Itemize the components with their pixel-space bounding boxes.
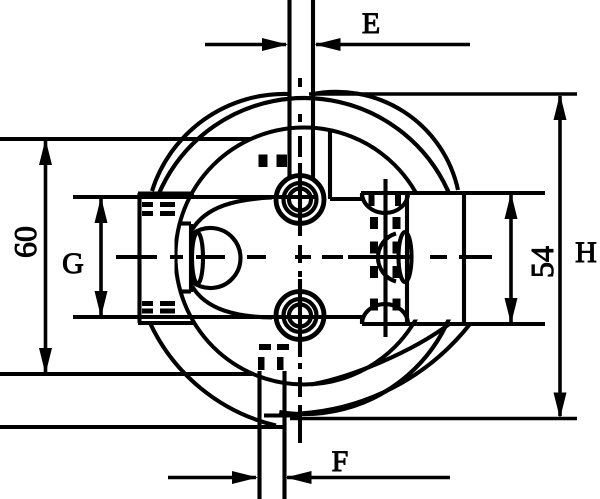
block hatch top row2 right xyxy=(160,211,175,216)
hidden bar right column 1 xyxy=(393,217,401,229)
slot arc bottom-right inner xyxy=(311,324,450,385)
bottom screw outer circle xyxy=(276,292,324,340)
60-dim lower extension line xyxy=(0,372,252,376)
F arrow right-pointing xyxy=(232,471,258,484)
dome arc xyxy=(378,234,396,282)
H arrow up xyxy=(554,94,567,120)
60-dim upper extension line xyxy=(0,137,250,141)
white cover left block interior xyxy=(142,195,175,321)
upper plate line xyxy=(73,195,318,199)
top bowl dash 1 xyxy=(369,194,375,206)
hidden bar left column 1 xyxy=(370,217,378,229)
inner circle xyxy=(176,128,433,385)
60 arrow up xyxy=(39,139,52,165)
E arrow left-pointing xyxy=(315,38,341,51)
bottom tangent segment xyxy=(264,413,300,417)
vertical centerline dashes xyxy=(298,78,302,443)
G arrow down xyxy=(95,291,108,317)
svg-text:E: E xyxy=(362,7,380,40)
F dimension left line xyxy=(168,476,256,480)
right step top horizontal xyxy=(330,197,362,201)
hidden dash above top screw left xyxy=(259,155,268,168)
horn arc lower xyxy=(192,286,272,318)
F dimension right line xyxy=(287,476,450,480)
block hatch bottom row1 left xyxy=(142,301,153,306)
54 arrow down xyxy=(505,298,518,324)
E dimension right line xyxy=(316,43,470,47)
left block top edge xyxy=(138,192,194,196)
horizontal centerline dashes xyxy=(116,255,492,259)
left block upper step xyxy=(179,221,191,225)
H dimension line xyxy=(558,96,562,416)
svg-text:54: 54 xyxy=(524,246,560,278)
54 arrow up xyxy=(505,193,518,219)
hidden dash below bottom screw v-right xyxy=(277,357,284,370)
E arrow right-pointing xyxy=(262,38,288,51)
bottom screw slot line xyxy=(298,279,302,357)
lower plate line xyxy=(73,315,362,319)
top bowl arc xyxy=(362,193,408,213)
bottom tab left line xyxy=(257,371,261,499)
right step top vertical xyxy=(360,193,364,199)
hidden bar left column 2 xyxy=(370,242,378,254)
hidden dash above top screw right xyxy=(277,155,288,168)
top bowl dash 2 xyxy=(395,194,401,206)
slot arc bottom-right outer xyxy=(300,324,470,414)
bottom step vertical xyxy=(360,317,364,324)
top screw middle circle xyxy=(284,183,317,216)
svg-text:F: F xyxy=(332,445,349,478)
bottom tab right line xyxy=(282,371,286,499)
left block lower step xyxy=(179,289,191,293)
block hatch bottom row2 left xyxy=(142,309,153,314)
top screw outer circle xyxy=(276,176,324,224)
60 dimension line xyxy=(44,141,48,372)
svg-text:G: G xyxy=(62,247,84,280)
E dimension left line xyxy=(205,43,286,47)
hidden dash below bottom screw h-right xyxy=(277,344,289,350)
hidden dash below bottom screw v-left xyxy=(258,357,265,370)
outer circle xyxy=(146,98,462,414)
H arrow down xyxy=(554,393,567,419)
slot arc top-right xyxy=(311,92,458,190)
D-bump arc xyxy=(193,228,241,288)
F arrow left-pointing xyxy=(286,471,312,484)
bottom-left horizontal line xyxy=(0,425,284,429)
svg-text:H: H xyxy=(575,236,597,269)
long vertical line x385 xyxy=(383,179,387,337)
horn arc upper xyxy=(192,198,272,231)
D-bump flat edge xyxy=(189,224,193,292)
white cover right lug interior xyxy=(409,195,544,320)
block hatch top row1 right xyxy=(160,202,175,207)
hidden bar right column 2 xyxy=(393,242,401,254)
left block bottom edge xyxy=(138,321,194,325)
block hatch bottom row2 right xyxy=(160,309,175,314)
block hatch top row2 left xyxy=(142,211,153,216)
slot arc bottom-left xyxy=(150,323,276,426)
top tab left line xyxy=(287,0,291,178)
H bottom extension line xyxy=(290,417,577,421)
hidden bar right column 3 xyxy=(393,266,401,278)
top screw slot line xyxy=(298,163,302,236)
right vertical line x330 xyxy=(328,131,332,199)
lug top line with 54 extension xyxy=(361,191,545,195)
top screw inner circle xyxy=(289,189,311,211)
60 arrow down xyxy=(39,348,52,374)
slot arc top-left xyxy=(152,94,290,191)
block hatch top row1 left xyxy=(142,202,153,207)
G arrow up xyxy=(95,197,108,223)
lug bottom line with 54 extension xyxy=(362,322,545,326)
bottom screw inner circle xyxy=(289,305,311,327)
hidden dash below bottom screw h-left xyxy=(259,344,271,350)
dome end ellipse xyxy=(399,232,412,282)
hidden bar left column 4 xyxy=(370,299,378,311)
svg-text:60: 60 xyxy=(7,226,43,258)
lug divider line xyxy=(462,193,466,324)
block hatch bottom row1 right xyxy=(160,301,175,306)
bottom screw middle circle xyxy=(284,299,317,332)
H top extension line xyxy=(309,92,577,96)
D-bump inner ellipse xyxy=(192,233,203,284)
lug left edge xyxy=(405,193,409,324)
left block left edge xyxy=(137,193,141,323)
G dimension line xyxy=(99,199,103,315)
hidden bar left column 3 xyxy=(370,266,378,278)
hidden bar right column 4 xyxy=(393,299,401,311)
54 dimension line xyxy=(509,195,513,322)
bottom bowl arc xyxy=(362,304,408,324)
top tab right line xyxy=(311,0,315,178)
